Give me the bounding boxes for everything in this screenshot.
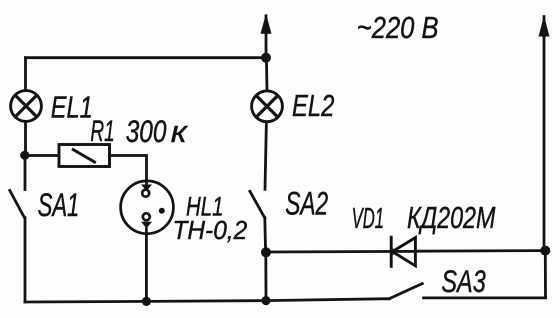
wire EL1 bottom to node A [24,122,27,156]
junction dot HL1 bottom [142,297,151,306]
wire right rail lower [544,251,547,298]
label SA3 [441,264,486,299]
neon lamp HL1 [121,181,174,234]
wire top horizontal [26,56,267,59]
svg-text:300: 300 [126,113,167,149]
wire bottom left [25,301,266,302]
label КД202М [407,200,496,235]
label SA2 [285,186,328,222]
junction dot top middle [261,53,271,63]
wire resistor feed [25,154,59,157]
svg-text:R1: R1 [90,116,114,148]
wire node B to diode [266,250,415,253]
power arrow left [261,14,272,58]
svg-text:SA1: SA1 [38,187,80,223]
svg-text:SA2: SA2 [285,186,328,222]
switch SA3 [389,284,545,299]
wire EL2 to SA2 [265,122,266,190]
svg-text:КД202М: КД202М [407,200,496,235]
resistor R1 [59,145,110,167]
junction dot middle bottom [261,296,270,305]
switch SA1 [10,156,25,303]
switch SA2 [250,191,266,252]
wire HL1 bottom lead [145,234,148,302]
svg-text:EL2: EL2 [292,88,334,123]
lamp EL2 [252,91,283,122]
node A junction dot [20,151,29,160]
label ~220 В [357,11,439,46]
diode VD1 [391,237,415,266]
svg-text:EL1: EL1 [51,89,93,124]
wire node B down [264,252,267,300]
label VD1 [352,204,384,236]
wire resistor to HL1 [110,156,147,181]
label 300 к [126,113,167,149]
svg-text:ТН-0,2: ТН-0,2 [173,216,248,245]
wire left rail top [24,58,27,91]
junction dot node B [261,247,271,257]
svg-text:к: к [171,114,189,148]
power arrow right [539,16,550,251]
label EL1 [51,89,93,124]
svg-text:SA3: SA3 [441,264,486,299]
junction dot right rail [540,246,550,256]
wire arrow to EL2 [265,58,268,91]
svg-text:VD1: VD1 [352,204,384,236]
wire bottom middle to SA3 [266,299,389,301]
wire diode to right rail [416,249,546,252]
label HL1 [186,192,223,222]
svg-text:~220 В: ~220 В [357,11,439,46]
lamp EL1 [11,91,42,122]
label SA1 [38,187,80,223]
label R1 [90,116,114,148]
label ТН-0,2 [173,216,248,245]
label EL2 [292,88,334,123]
